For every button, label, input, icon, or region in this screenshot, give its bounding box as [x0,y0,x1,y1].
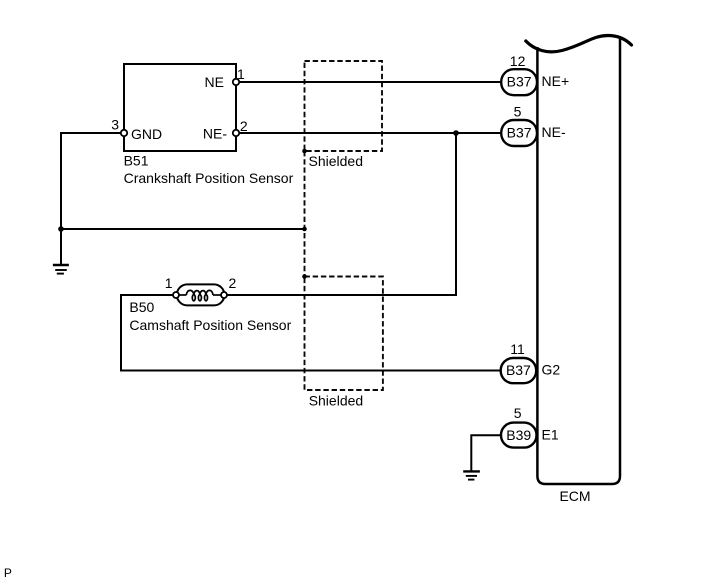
svg-text:G2: G2 [542,362,561,378]
connector B37 pin 5 (NE-) [501,120,537,146]
coil leads [178,294,186,296]
shield drain dashed wire [304,151,306,277]
svg-text:Camshaft Position Sensor: Camshaft Position Sensor [129,317,291,333]
ground (crankshaft sensor shield) [53,265,69,274]
svg-text:1: 1 [165,275,173,291]
ground (ECM E1) [463,471,480,479]
svg-text:1: 1 [237,66,245,82]
wire shield ground (junction to shield drain) [61,228,305,230]
junction node GND to shield drain [302,227,307,232]
camshaft position sensor B50 body (pickup coil) [177,284,225,305]
svg-text:B37: B37 [506,362,531,378]
svg-text:2: 2 [229,275,237,291]
inductor coil under-loops [192,295,207,301]
connector B37 pin 11 (G2) [501,358,537,383]
svg-text:B37: B37 [507,125,532,141]
svg-text:3: 3 [111,116,119,132]
wire NE- (B51 pin2 to ECM B37-5) [236,132,519,134]
svg-text:ECM: ECM [559,488,590,504]
svg-text:B50: B50 [129,299,154,315]
shield dashed box 2 (around camshaft sensor wires) [305,277,383,391]
svg-text:Shielded: Shielded [309,393,364,409]
svg-text:12: 12 [510,53,526,69]
inductor coil (4 humps) [186,290,213,295]
svg-text:NE-: NE- [542,124,566,140]
wire NE+ (B51 pin1 to ECM B37-12) [236,81,519,83]
junction node on NE- wire [453,130,459,136]
svg-text:5: 5 [514,104,522,120]
svg-text:P: P [4,566,12,580]
ECM torn-edge wavy top [526,36,632,52]
svg-text:Shielded: Shielded [309,153,364,169]
svg-text:GND: GND [131,126,162,142]
svg-text:NE+: NE+ [542,73,570,89]
pin 2 terminal circle [233,130,239,136]
svg-text:2: 2 [240,118,248,134]
connector B39 pin 5 (E1) [501,423,537,448]
crankshaft position sensor B51 body [124,64,236,151]
svg-text:B39: B39 [506,427,531,443]
wire camshaft pin2 up to NE- net [224,133,456,295]
svg-text:NE-: NE- [203,126,227,142]
wire E1 to ground [471,435,519,471]
ECM body outline [537,38,620,484]
svg-text:E1: E1 [542,427,559,443]
svg-text:Crankshaft Position Sensor: Crankshaft Position Sensor [124,170,294,186]
pin 3 terminal circle [121,130,127,136]
junction node GND wire [58,226,64,232]
connector B37 pin 12 (NE+) [501,69,537,95]
junction node shield drain top [302,149,307,154]
shield dashed box 1 (around NE+/NE- wires) [305,61,383,151]
svg-text:B37: B37 [507,74,532,90]
junction node shield drain bottom [302,274,307,279]
svg-text:5: 5 [514,405,522,421]
svg-text:11: 11 [510,341,525,357]
svg-text:B51: B51 [124,153,149,169]
pin 1 terminal circle [233,79,239,85]
wire GND (B51 pin3 left and down to ground) [61,133,124,265]
svg-text:NE: NE [205,74,224,90]
wire camshaft pin1 to G2 (B37-11) [121,295,518,371]
pin 1 terminal circle (camshaft) [173,292,179,298]
pin 2 terminal circle (camshaft) [221,292,227,298]
